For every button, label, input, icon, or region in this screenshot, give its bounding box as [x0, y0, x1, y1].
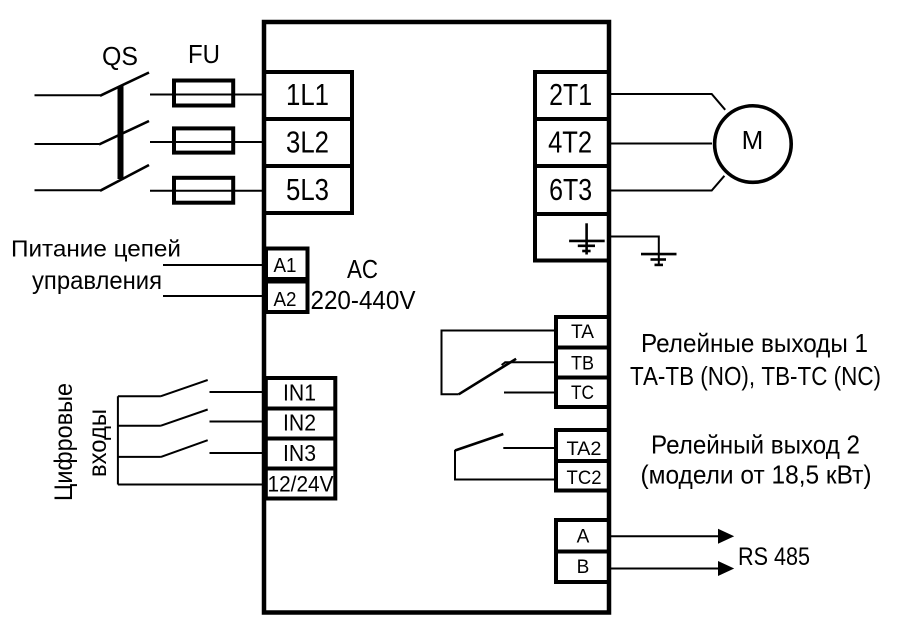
terminal block IN1/IN2/IN3/12-24V	[266, 378, 336, 499]
wire 6T3 to motor	[611, 176, 724, 191]
wire IN2 right	[210, 421, 265, 423]
wire RS485 A with arrow	[609, 535, 720, 537]
wire RS485 B with arrow	[609, 568, 720, 570]
svg-text:QS: QS	[102, 41, 138, 71]
svg-text:TA2: TA2	[567, 439, 602, 460]
svg-text:IN3: IN3	[283, 440, 316, 466]
switch IN1 blade	[161, 380, 208, 396]
svg-text:AC: AC	[347, 254, 378, 284]
terminal A1	[266, 249, 308, 280]
wire IN1 left	[118, 395, 161, 397]
wire relay1 NC contact TC	[504, 392, 556, 394]
wire phase L1 input	[35, 94, 101, 96]
svg-text:RS 485: RS 485	[738, 543, 810, 571]
wire relay2 common TC2	[455, 450, 556, 480]
svg-text:IN2: IN2	[283, 409, 316, 435]
wire fuse FU2 to terminal 3L2	[150, 141, 264, 143]
wire IN3 left	[118, 456, 161, 458]
svg-text:6T3: 6T3	[549, 172, 592, 207]
svg-text:B: B	[577, 557, 590, 578]
svg-text:5L3: 5L3	[286, 172, 329, 207]
svg-text:1L1: 1L1	[286, 77, 329, 112]
svg-text:TA: TA	[571, 322, 594, 343]
svg-text:FU: FU	[188, 39, 220, 69]
svg-text:Цифровые: Цифровые	[50, 383, 78, 501]
wire relay1 common TA	[442, 331, 557, 395]
wire phase L3 input	[35, 189, 101, 191]
digital input bus wire	[117, 396, 119, 484]
svg-text:Питание цепей: Питание цепей	[11, 236, 181, 262]
svg-text:ТА-ТВ (NO), ТВ-ТС (NC): ТА-ТВ (NO), ТВ-ТС (NC)	[630, 361, 881, 391]
wire to terminal A2	[163, 295, 266, 297]
svg-text:TC: TC	[571, 383, 594, 404]
terminal block TA2/TC2	[556, 430, 609, 491]
svg-text:Релейный выход 2: Релейный выход 2	[651, 430, 860, 460]
wire phase L2 input	[35, 143, 100, 145]
ground symbol in PE terminal	[569, 223, 605, 254]
switch QS pole 3 blade	[100, 165, 149, 191]
wire relay2 NO contact TA2	[503, 447, 556, 449]
relay2 blade	[455, 434, 503, 451]
svg-text:M: M	[742, 125, 764, 155]
terminal block 1L1/3L2/5L3	[264, 72, 352, 213]
wire fuse FU1 to terminal 1L1	[150, 94, 264, 96]
svg-text:управления: управления	[32, 267, 162, 295]
terminal block A/B	[556, 520, 609, 582]
terminal A2	[266, 282, 308, 313]
svg-text:(модели от 18,5 кВт): (модели от 18,5 кВт)	[641, 460, 872, 490]
svg-text:A2: A2	[274, 289, 297, 311]
wire PE to external ground	[611, 237, 659, 267]
wire IN3 right	[210, 452, 265, 454]
wire IN2 left	[118, 425, 161, 427]
fuse FU2	[174, 128, 233, 152]
switch QS mechanical link bar	[118, 86, 124, 179]
svg-text:12/24V: 12/24V	[268, 472, 334, 497]
wire 4T2 to motor	[611, 143, 712, 145]
svg-text:A: A	[577, 527, 590, 548]
wire fuse FU3 to terminal 5L3	[150, 190, 264, 192]
svg-text:3L2: 3L2	[286, 124, 329, 159]
svg-text:220-440V: 220-440V	[311, 285, 417, 315]
relay1 contact tick	[502, 362, 506, 365]
motor M1 circle	[715, 106, 792, 183]
svg-text:входы: входы	[84, 409, 112, 477]
external ground symbol	[641, 254, 677, 265]
svg-text:Релейные выходы 1: Релейные выходы 1	[641, 328, 868, 358]
switch IN3 blade	[161, 440, 208, 457]
wire to terminal A1	[163, 264, 266, 266]
svg-text:A1: A1	[274, 255, 297, 277]
svg-text:TC2: TC2	[567, 468, 602, 489]
svg-text:IN1: IN1	[283, 379, 316, 405]
wire relay1 NO contact TB	[505, 361, 557, 363]
wire 12/24V	[118, 484, 264, 486]
switch IN2 blade	[161, 410, 208, 426]
svg-text:2T1: 2T1	[549, 77, 592, 112]
terminal block 2T1/4T2/6T3/PE	[535, 72, 609, 261]
frequency converter U1 outline	[264, 22, 609, 613]
switch QS pole 1 blade	[100, 73, 149, 96]
terminal block TA/TB/TC	[556, 317, 609, 407]
svg-text:TB: TB	[571, 354, 594, 375]
wire 2T1 to motor	[611, 94, 725, 110]
wire IN1 right	[210, 391, 265, 393]
switch QS pole 2 blade	[99, 121, 149, 145]
svg-text:4T2: 4T2	[548, 124, 592, 159]
fuse FU1	[174, 81, 233, 106]
fuse FU3	[174, 178, 233, 203]
relay1 blade	[459, 359, 516, 395]
